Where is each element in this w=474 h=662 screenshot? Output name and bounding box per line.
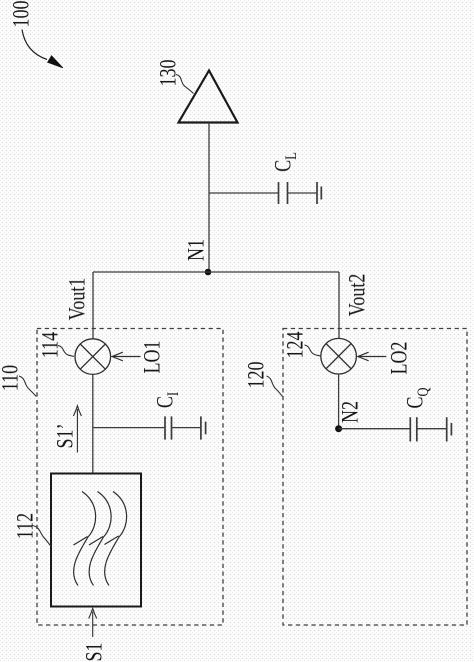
wire: CQ to ground bbox=[417, 428, 446, 430]
label Vout1 bbox=[66, 277, 89, 320]
leader squiggle for 130 bbox=[176, 75, 194, 94]
S1 input arrow bbox=[89, 608, 97, 637]
wire: branch to capacitor CI bbox=[93, 427, 165, 429]
wire: left branch down to mixer 114 bbox=[92, 272, 94, 339]
label N1 bbox=[185, 239, 208, 261]
label 110 bbox=[0, 364, 21, 390]
filter wave curves bbox=[74, 492, 127, 586]
label 130 bbox=[156, 60, 179, 87]
label CQ bbox=[403, 387, 426, 408]
arrow leader for label 100 bbox=[22, 30, 63, 69]
amplifier triangle 130 bbox=[179, 71, 238, 123]
wire: right branch down to mixer 124 bbox=[338, 272, 340, 339]
label CL bbox=[272, 152, 295, 172]
wire: CL to ground bbox=[288, 192, 317, 194]
capacitor CL plates bbox=[279, 182, 288, 204]
capacitor CI plates bbox=[165, 416, 172, 439]
label 120 bbox=[244, 362, 267, 389]
leader squiggle for 120 bbox=[267, 376, 283, 397]
node N2 junction dot bbox=[335, 425, 342, 432]
leader squiggle for 112 bbox=[33, 526, 52, 547]
label S1 bbox=[82, 643, 105, 662]
leader squiggle for 124 bbox=[305, 345, 321, 356]
wire: N2 to capacitor CQ bbox=[339, 428, 410, 430]
ground symbol for CI bbox=[201, 416, 206, 439]
wire: CI to ground bbox=[172, 427, 201, 429]
label N2 bbox=[338, 401, 361, 423]
dashed box 120 bbox=[283, 329, 467, 626]
mixer 114 circle with X bbox=[75, 339, 111, 375]
label LO2 bbox=[388, 342, 411, 375]
filter block 112 bbox=[51, 474, 141, 607]
label 100 bbox=[9, 0, 32, 27]
label LO1 bbox=[141, 340, 164, 373]
label S1prime bbox=[54, 424, 77, 449]
label 112 bbox=[14, 512, 37, 538]
wire: mixer 114 down to filter 112 bbox=[92, 374, 94, 473]
LO2 arrow into mixer 124 bbox=[358, 352, 387, 361]
wire: triangle base to node N1 bbox=[208, 123, 210, 273]
S1' direction arrow bbox=[73, 406, 81, 453]
LO1 arrow into mixer 114 bbox=[112, 352, 141, 361]
wire: mixer 124 down to node N2 bbox=[338, 374, 340, 429]
node N1 junction dot bbox=[205, 269, 212, 276]
label 124 bbox=[284, 332, 307, 359]
label Vout2 bbox=[346, 274, 369, 317]
label 114 bbox=[39, 331, 62, 357]
dashed box 110 bbox=[37, 329, 223, 626]
mixer 124 circle with X bbox=[321, 338, 357, 374]
label CI bbox=[154, 391, 177, 407]
leader squiggle for 110 bbox=[19, 376, 36, 397]
leader squiggle for 114 bbox=[58, 346, 74, 357]
wire: main horizontal bus at N1 bbox=[93, 271, 339, 273]
ground symbol for CL bbox=[317, 182, 321, 204]
wire: branch to capacitor CL bbox=[209, 192, 278, 194]
capacitor CQ plates bbox=[410, 417, 417, 441]
ground symbol for CQ bbox=[447, 417, 452, 441]
